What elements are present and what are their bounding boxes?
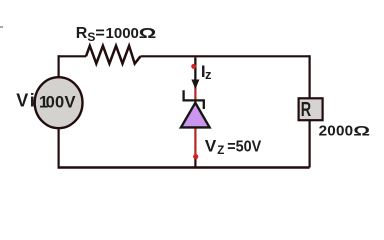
- wire bottom: [58, 166, 310, 168]
- svg-text:RS=1000: RS=1000: [76, 25, 139, 44]
- svg-text:Vi: Vi: [16, 90, 35, 110]
- resistor R box: [299, 98, 323, 120]
- wire middle red: [194, 57, 196, 157]
- zener diode D1 cathode bar: [184, 90, 204, 109]
- svg-text:Ω: Ω: [353, 123, 370, 139]
- wire top-right lead: [141, 55, 310, 57]
- svg-text:Ω: Ω: [139, 25, 157, 41]
- zener diode D1 triangle: [181, 103, 210, 128]
- svg-text:V: V: [205, 137, 217, 156]
- svg-text:2000: 2000: [319, 123, 354, 140]
- junction dot upper: [191, 64, 196, 69]
- svg-text:R: R: [301, 99, 312, 121]
- svg-text:100V: 100V: [39, 93, 76, 111]
- svg-text:Z: Z: [217, 145, 224, 157]
- wire right upper: [309, 55, 311, 98]
- wire right lower: [309, 120, 311, 167]
- wire left upper: [57, 55, 59, 77]
- resistor RS zigzag: [86, 46, 141, 64]
- source Vi circle: [35, 77, 83, 128]
- svg-text:z: z: [205, 67, 212, 82]
- wire top-left lead: [59, 55, 86, 57]
- current arrow Iz head: [191, 80, 199, 90]
- wire middle lower dark stub: [194, 156, 196, 167]
- current arrow Iz shaft: [194, 57, 196, 80]
- svg-text:=50V: =50V: [227, 139, 261, 156]
- edge artifact dash: [0, 26, 3, 28]
- junction dot lower: [193, 154, 198, 159]
- wire left lower: [57, 128, 59, 168]
